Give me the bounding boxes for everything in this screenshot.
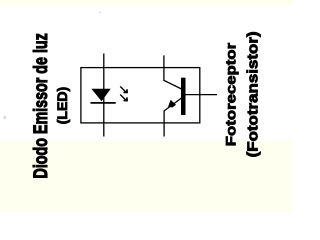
svg-text:(Fototransistor): (Fototransistor) bbox=[245, 31, 262, 157]
svg-text:Diodo Emissor de luz: Diodo Emissor de luz bbox=[29, 33, 51, 179]
svg-text:(LED): (LED) bbox=[56, 87, 72, 125]
svg-text:Fotoreceptor: Fotoreceptor bbox=[224, 42, 239, 146]
